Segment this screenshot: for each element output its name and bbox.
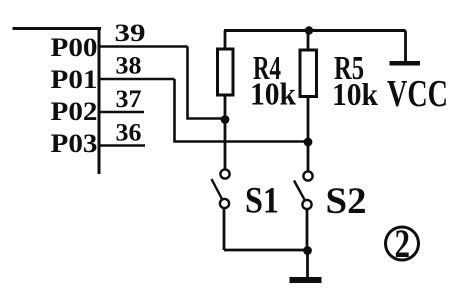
svg-text:P00: P00 <box>51 33 98 62</box>
svg-text:S1: S1 <box>245 181 279 222</box>
svg-text:S2: S2 <box>326 181 367 222</box>
svg-text:37: 37 <box>116 86 142 113</box>
svg-text:10k: 10k <box>250 76 296 112</box>
svg-text:39: 39 <box>115 20 146 47</box>
svg-text:36: 36 <box>116 120 142 147</box>
svg-text:P01: P01 <box>51 65 98 94</box>
svg-text:38: 38 <box>116 53 142 80</box>
svg-text:VCC: VCC <box>387 73 448 115</box>
svg-text:10k: 10k <box>332 76 378 112</box>
svg-text:P02: P02 <box>51 97 98 126</box>
svg-text:2: 2 <box>395 221 411 266</box>
svg-text:P03: P03 <box>51 129 98 158</box>
